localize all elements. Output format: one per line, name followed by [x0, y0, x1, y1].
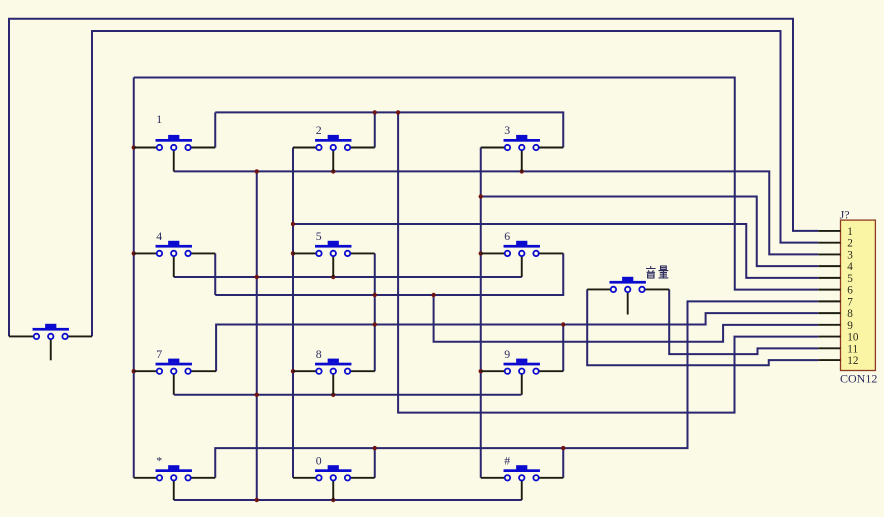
svg-text:4: 4	[156, 229, 162, 243]
wire net N10: row 3 right terminals to connector pin 8	[216, 313, 818, 371]
junction: pin-9 branch on row2 right bus	[431, 293, 435, 297]
junction: button-8 left on column 2	[291, 369, 295, 373]
push-button S11 key 0	[293, 465, 375, 500]
wire: link row2-right bus to row3-right bus x=374.75	[374, 295, 376, 325]
push-button S1 key 1	[134, 135, 216, 172]
svg-text:J?: J?	[840, 207, 850, 221]
connector pin 6 stub	[818, 289, 840, 291]
svg-text:8: 8	[847, 308, 853, 320]
push-button S2 key 2	[293, 135, 375, 172]
wire net N7: keypad column 3 (buttons 3,6,9,#) to connector pin 4	[480, 148, 482, 478]
junction: button-0 right on row4 right bus	[373, 446, 377, 450]
connector pin 12 stub	[818, 359, 840, 361]
connector pin 2 stub	[818, 242, 840, 244]
wire net N13: row 4 center bus	[174, 499, 522, 501]
label 音量 (volume)	[646, 266, 668, 278]
connector J? CON12 body	[841, 220, 876, 370]
svg-text:10: 10	[847, 332, 859, 344]
junction: button-8 center on row3 center bus	[331, 393, 335, 397]
junction: button-1 left on column 1	[132, 145, 136, 149]
junction: button-0 center on row4 center bus	[331, 498, 335, 502]
svg-text:11: 11	[847, 343, 858, 355]
push-button S9 key 9	[481, 359, 564, 395]
wire net N11: row 3 center bus	[174, 394, 521, 396]
svg-text:5: 5	[847, 273, 853, 285]
connector pin 9 stub	[818, 324, 840, 326]
push-button S3 key 3	[481, 135, 564, 172]
svg-text:7: 7	[156, 347, 162, 361]
connector pin 4 stub	[818, 265, 840, 267]
junction: button-9 left on column 3	[479, 369, 483, 373]
connector pin 1 stub	[818, 230, 840, 232]
svg-text:3: 3	[847, 249, 853, 261]
junction: button-5 right on row2 right bus	[373, 293, 377, 297]
junction: link on row3 right bus	[373, 322, 377, 326]
junction: pin-4 branch on column 3	[479, 194, 483, 198]
wire net N8: row 2 center bus	[174, 276, 522, 278]
svg-text:2: 2	[847, 238, 853, 250]
push-button S13 side button	[9, 324, 92, 361]
wire net N5: row 1 right terminals to connector pin 10	[214, 112, 216, 147]
junction: button-5 center on row2 center bus	[331, 275, 335, 279]
push-button S6 key 6	[481, 241, 564, 277]
junction: button-4 left on column 1	[132, 251, 136, 255]
connector pin 7 stub	[818, 300, 840, 302]
push-button S8 key 8	[293, 359, 375, 395]
push-button S12 key #	[481, 465, 564, 500]
svg-text:8: 8	[316, 347, 322, 361]
junction: pin-5 branch on column 2	[291, 222, 295, 226]
svg-text:6: 6	[504, 229, 510, 243]
svg-text:CON12: CON12	[840, 371, 877, 385]
wire net N15: volume-button right to connector pin 11	[669, 289, 818, 354]
svg-text:2: 2	[316, 123, 322, 137]
svg-text:4: 4	[847, 261, 853, 273]
junction: center spine on row1 center bus	[255, 169, 259, 173]
push-button S5 key 5	[293, 241, 375, 277]
svg-text:9: 9	[504, 347, 510, 361]
wire net N14: volume-button left to connector pin 12	[587, 289, 818, 365]
svg-text:7: 7	[847, 296, 853, 308]
wire net N3: keypad column 1 (buttons 1,4,7,*) to connector pin 6	[133, 78, 135, 478]
connector pin 11 stub	[818, 347, 840, 349]
svg-text:3: 3	[504, 123, 510, 137]
junction: pin-10 drop on row1 bus	[396, 110, 400, 114]
junction: center spine on row2 center bus	[255, 275, 259, 279]
junction: button-7 left on column 1	[132, 369, 136, 373]
svg-text:9: 9	[847, 320, 853, 332]
wire net N4: row centers bus to connector pin 3	[174, 171, 819, 254]
wire net N2: side-button right to connector pin 2	[92, 31, 818, 336]
wire net N12: row 4 right terminals to connector pin 7	[215, 301, 818, 477]
junction: button-2 right on row1 bus	[373, 110, 377, 114]
junction: button-9 right on row3 right bus	[561, 322, 565, 326]
svg-text:12: 12	[847, 355, 858, 367]
wire: branch to pin 9	[434, 295, 819, 342]
push-button S14 volume button	[587, 277, 669, 315]
connector pin 3 stub	[818, 253, 840, 255]
push-button S4 key 4	[134, 241, 216, 277]
wire net N9: row 2 right terminals to connector pin 9	[214, 253, 216, 295]
svg-text:1: 1	[847, 226, 853, 238]
junction: button-6 left on column 3	[479, 251, 483, 255]
junction: center spine on row3 center bus	[255, 393, 259, 397]
svg-text:0: 0	[316, 453, 322, 467]
svg-text:*: *	[156, 453, 162, 467]
push-button S10 key *	[134, 465, 216, 500]
svg-text:5: 5	[316, 229, 322, 243]
svg-text:1: 1	[156, 112, 162, 126]
svg-text:#: #	[504, 453, 510, 467]
junction: button-2 center on row1 center bus	[331, 169, 335, 173]
wire net N1: side-button left to connector pin 1	[9, 19, 818, 337]
junction: button-# right on row4 right bus	[561, 446, 565, 450]
wire: center-bus vertical spine x=256.75	[256, 171, 258, 500]
connector pin 8 stub	[818, 312, 840, 314]
wire net N6: keypad column 2 (buttons 2,5,8,0) to connector pin 5	[292, 148, 294, 478]
junction: button-5 left on column 2	[291, 251, 295, 255]
svg-text:6: 6	[847, 285, 853, 297]
connector pin 5 stub	[818, 277, 840, 279]
connector pin 10 stub	[818, 336, 840, 338]
junction: center spine on row4 center bus	[255, 498, 259, 502]
push-button S7 key 7	[134, 359, 216, 395]
junction: button-3 center on row1 center bus	[520, 169, 524, 173]
